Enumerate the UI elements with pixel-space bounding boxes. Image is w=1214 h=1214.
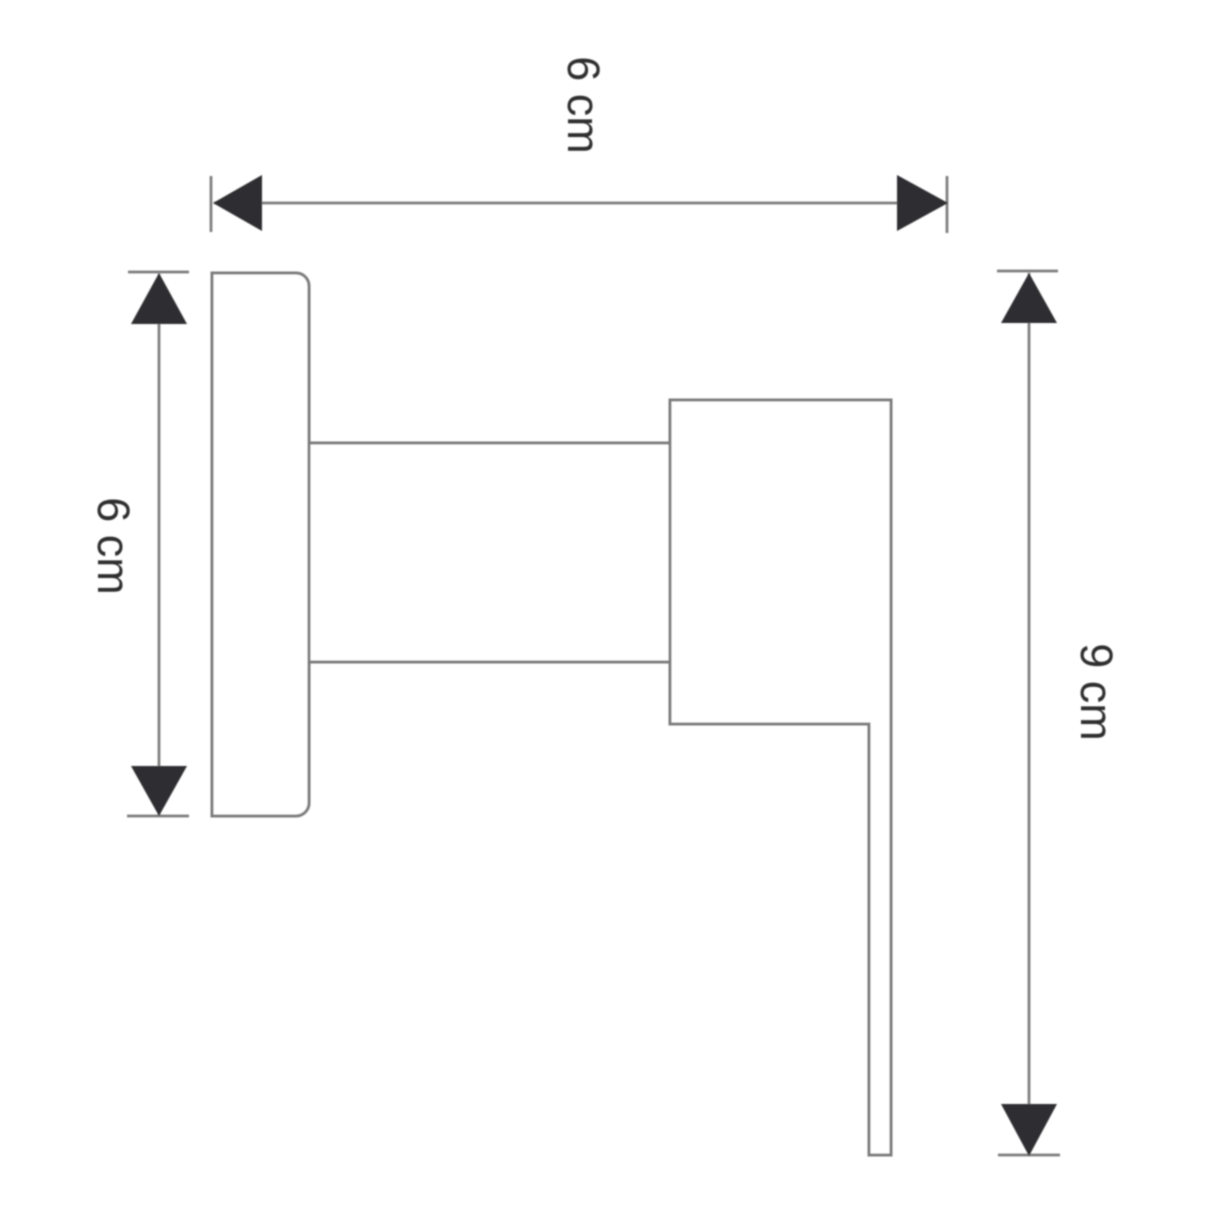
top dimension: left arrowhead (213, 175, 262, 231)
top dimension: extension tick left (210, 176, 213, 232)
shaft (stem between plate and valve body) (309, 443, 670, 662)
right dimension line (9 cm vertical) (1028, 273, 1031, 1154)
top dimension: extension tick right (946, 176, 949, 233)
right dimension: extension tick top (997, 270, 1058, 273)
svg-text:6 cm: 6 cm (88, 497, 139, 595)
svg-text:9 cm: 9 cm (1071, 643, 1122, 741)
valve body with lever handle outline (670, 400, 891, 1155)
left dimension: extension tick bottom (127, 815, 189, 818)
top dimension line (6 cm horizontal) (214, 202, 946, 205)
left dimension: extension tick top (128, 271, 189, 274)
right dimension: up arrowhead (1001, 273, 1057, 323)
left dimension: down arrowhead (131, 766, 187, 816)
svg-text:6 cm: 6 cm (558, 56, 609, 154)
left dimension: up arrowhead (131, 273, 187, 324)
wall plate (rounded right corners) (212, 273, 309, 816)
left dimension line (6 cm vertical) (158, 274, 161, 815)
right dimension: down arrowhead (1001, 1104, 1057, 1156)
right dimension: extension tick bottom (998, 1154, 1060, 1157)
top dimension: right arrowhead (897, 175, 948, 231)
